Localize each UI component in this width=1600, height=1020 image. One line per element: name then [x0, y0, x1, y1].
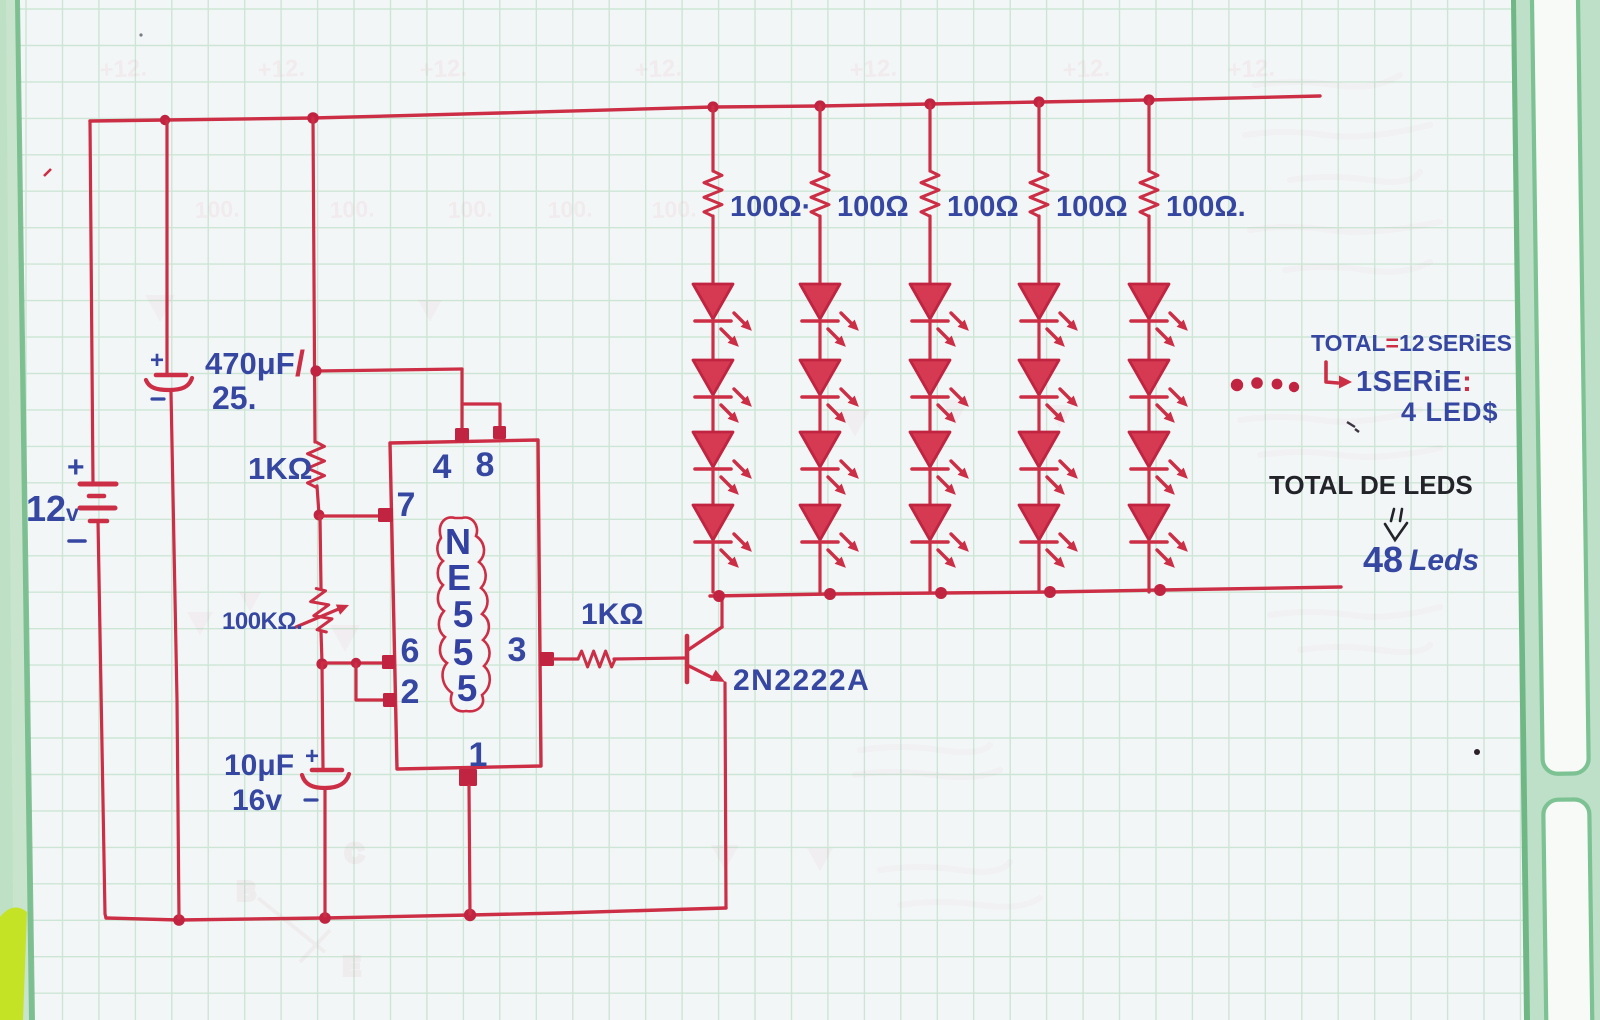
node: return rail junction column 5: [1154, 584, 1166, 596]
svg-text:/: /: [295, 343, 305, 384]
label: battery + terminal: [67, 451, 85, 484]
label: NE555 bubble outline: [437, 517, 489, 711]
label: C1 value 25.: [212, 380, 256, 416]
svg-text:100.: 100.: [651, 195, 697, 223]
wire: column 1 rail to resistor: [711, 107, 714, 171]
wire: potentiometer to pin6 junction: [321, 631, 322, 663]
wire: column 3 between diode 3 and 4: [928, 469, 931, 505]
node: return rail junction column 3: [935, 587, 947, 599]
svg-text:+: +: [67, 451, 85, 484]
svg-text:TOTAL DE LEDS: TOTAL DE LEDS: [1269, 470, 1473, 500]
wire: LED cathode return rail: [710, 587, 1341, 596]
op-amp U1 NE555 timer body: [390, 440, 541, 769]
wire: column 5 resistor to first LED: [1147, 216, 1150, 284]
resistor R2 1K base resistor: [578, 651, 615, 667]
label: C1 + sign: [150, 347, 164, 374]
svg-text:v: v: [66, 500, 79, 526]
label: pin number 1: [469, 736, 488, 774]
LED column 4 diode 2: [1019, 360, 1078, 423]
svg-text:100.: 100.: [194, 195, 240, 223]
LED column 2 diode 1: [800, 284, 859, 347]
svg-text:100Ω: 100Ω: [837, 191, 909, 223]
wire: column 2 last LED to return rail: [818, 542, 821, 592]
label: pin number 8: [476, 446, 495, 484]
svg-text:6: 6: [401, 632, 420, 670]
resistor R3 100 ohm column 1: [704, 171, 722, 216]
wire: column 1 resistor to first LED: [711, 216, 714, 284]
wire: column 4 between diode 2 and 3: [1037, 397, 1040, 432]
svg-text:100Ω·: 100Ω·: [730, 191, 811, 223]
wire: C1 negative plate down to bottom rail: [171, 392, 179, 918]
wire: column 3 resistor to first LED: [928, 216, 931, 284]
wire: junction down to potentiometer: [320, 516, 321, 588]
svg-text:1KΩ: 1KΩ: [581, 598, 643, 631]
svg-text:2: 2: [401, 673, 420, 711]
wire: column 4 between diode 1 and 2: [1037, 321, 1040, 360]
svg-text:+: +: [305, 743, 319, 770]
wire: battery negative down to bottom rail: [98, 521, 106, 918]
svg-text:100Ω: 100Ω: [1056, 191, 1128, 223]
node: junction R1 / pin7 / pot: [314, 510, 325, 521]
wire: column 3 rail to resistor: [928, 104, 931, 171]
svg-text:N: N: [445, 521, 471, 562]
svg-text:TOTAL=12SERiES: TOTAL=12SERiES: [1311, 330, 1512, 356]
wire: column 2 between diode 3 and 4: [818, 469, 821, 505]
node: top rail junction LED column 4: [1033, 96, 1044, 107]
LED column 1 diode 2: [693, 360, 752, 423]
svg-text:+12.: +12.: [849, 55, 898, 84]
LED column 5 diode 4: [1129, 505, 1188, 568]
svg-text:100.: 100.: [547, 195, 593, 223]
LED column 2 diode 2: [800, 360, 859, 423]
svg-text:+12.: +12.: [257, 55, 306, 84]
label: pin number 4: [433, 448, 452, 486]
label: battery - terminal: [69, 539, 85, 543]
wire: top rail to C1 positive plate: [165, 121, 168, 374]
svg-text:1KΩ: 1KΩ: [248, 451, 312, 486]
node: top rail junction LED column 3: [924, 98, 935, 109]
node: return rail junction column 4: [1044, 586, 1056, 598]
svg-text:+12.: +12.: [1227, 55, 1276, 84]
wire: battery positive to top rail: [90, 121, 93, 484]
LED column 4 diode 3: [1019, 432, 1078, 495]
wire: column 3 last LED to return rail: [928, 542, 931, 592]
svg-text:7: 7: [397, 486, 416, 524]
wire: column 5 between diode 1 and 2: [1147, 321, 1150, 360]
label: R2 value 1KΩ: [581, 598, 643, 631]
svg-text:+12.: +12.: [634, 55, 683, 84]
wire: R1 bottom to discharge junction: [317, 486, 319, 514]
LED column 2 diode 4: [800, 505, 859, 568]
label: Q1 part number 2N2222A: [733, 664, 870, 697]
capacitor C2 10uF 16v electrolytic: [302, 770, 349, 788]
node: return rail junction column 1 / collector: [713, 590, 725, 602]
svg-text:100.: 100.: [447, 195, 493, 223]
LED column 5 diode 1: [1129, 284, 1188, 347]
label: C2 value 16v: [232, 784, 282, 817]
pin 2 pad of U1: [383, 693, 396, 707]
label: NE555 letters: [445, 521, 477, 709]
dots: ellipsis continuation of LED series: [1231, 377, 1299, 392]
label: pin number 2: [401, 673, 420, 711]
svg-text:3: 3: [508, 631, 527, 669]
label: 1 SERIE:: [1356, 366, 1472, 398]
wire: pin 3 to base resistor: [554, 657, 578, 660]
label: column 3 resistor value 100Ω: [947, 191, 1019, 223]
label: RV1 value 100KΩ.: [222, 608, 302, 635]
capacitor C1 470uF/25 electrolytic: [146, 375, 192, 390]
svg-text:5: 5: [453, 594, 474, 635]
pin 3 pad of U1: [540, 652, 554, 666]
node: bottom rail junction at 470uF branch: [173, 914, 185, 926]
label: C2 value 10uF: [224, 749, 294, 782]
wire: VCC junction to pin 4 (and jog to pin 8): [316, 369, 500, 429]
wire: column 2 between diode 2 and 3: [818, 397, 821, 432]
svg-text:+12.: +12.: [1062, 55, 1111, 84]
pin 1 pad of U1: [459, 769, 477, 786]
wire: column 4 rail to resistor: [1037, 102, 1040, 171]
node: top rail junction at 555/R1 branch: [307, 112, 319, 124]
wire: column 3 between diode 2 and 3: [928, 397, 931, 432]
svg-text:16v: 16v: [232, 784, 282, 817]
svg-text:12: 12: [26, 488, 66, 529]
label: 4 LEDS: [1401, 397, 1499, 427]
label: column 4 resistor value 100Ω: [1056, 191, 1128, 223]
wire: pin2 branch down and right to 555 pin 2: [356, 664, 384, 700]
wire: top rail down to R1: [313, 118, 315, 442]
svg-text:8: 8: [476, 446, 495, 484]
wire: column 5 last LED to return rail: [1147, 542, 1150, 592]
wire: column 1 between diode 2 and 3: [711, 397, 714, 432]
LED column 3 diode 1: [910, 284, 969, 347]
svg-text:4 LED$: 4 LED$: [1401, 397, 1499, 427]
label: pin number 6: [401, 632, 420, 670]
node: junction on 555 branch feeding pins 4/8: [310, 365, 321, 376]
LED column 3 diode 4: [910, 505, 969, 568]
resistor R6 100 ohm column 4: [1030, 171, 1048, 216]
svg-text:E: E: [343, 951, 360, 981]
resistor R4 100 ohm column 2: [811, 171, 829, 216]
svg-text:470μF: 470μF: [205, 346, 295, 381]
wire: column 5 between diode 3 and 4: [1147, 469, 1150, 505]
node: top rail junction LED column 2: [814, 100, 825, 111]
wire: column 1 between diode 1 and 2: [711, 321, 714, 360]
LED column 5 diode 3: [1129, 432, 1188, 495]
svg-text:100Ω: 100Ω: [947, 191, 1019, 223]
wire: column 3 between diode 1 and 2: [928, 321, 931, 360]
LED column 4 diode 4: [1019, 505, 1078, 568]
label: R1 value 1KΩ: [248, 451, 312, 486]
resistor R7 100 ohm column 5: [1140, 171, 1158, 216]
wire: column 1 between diode 3 and 4: [711, 469, 714, 505]
node: return rail junction column 2: [824, 588, 836, 600]
LED column 5 diode 2: [1129, 360, 1188, 423]
wire: C2 negative plate to bottom rail: [323, 790, 326, 916]
node: bottom rail junction at pin1 branch: [464, 909, 476, 921]
label: pin number 7: [397, 486, 416, 524]
svg-text:10μF: 10μF: [224, 749, 294, 782]
svg-text:B: B: [237, 876, 256, 906]
label: C2 - sign: [305, 798, 317, 801]
label: C1 - sign: [152, 397, 164, 400]
wire: column 4 resistor to first LED: [1037, 216, 1040, 284]
wire: Q1 collector up to LED return rail: [720, 598, 723, 627]
svg-text:E: E: [447, 557, 471, 598]
LED column 1 diode 1: [693, 284, 752, 347]
wire: column 2 resistor to first LED: [818, 216, 821, 284]
wire: column 4 between diode 3 and 4: [1037, 469, 1040, 505]
label: battery value 12v: [26, 488, 79, 529]
svg-text:5: 5: [457, 668, 478, 709]
label: TOTAL DE LEDS: [1269, 470, 1473, 500]
pin 4 pad of U1: [455, 428, 469, 442]
node: top rail junction LED column 1: [707, 101, 718, 112]
potentiometer RV1 100K: [296, 587, 349, 634]
wire: bottom return rail: [106, 908, 726, 920]
pin 6 pad of U1: [382, 655, 395, 669]
svg-text:5: 5: [453, 632, 474, 673]
label: column 1 resistor value 100Ω: [730, 191, 811, 223]
label: pin number 3: [508, 631, 527, 669]
battery BT1 12v plates: [80, 484, 116, 521]
svg-text:Leds: Leds: [1409, 544, 1479, 577]
wire: Q1 emitter down to bottom rail: [725, 683, 726, 908]
LED column 1 diode 3: [693, 432, 752, 495]
svg-text:100KΩ.: 100KΩ.: [222, 608, 302, 635]
label: column 2 resistor value 100Ω: [837, 191, 909, 223]
svg-text:100.: 100.: [329, 195, 375, 223]
label: C2 + sign: [305, 743, 319, 770]
svg-text:1SERiE:: 1SERiE:: [1356, 366, 1472, 398]
pin 8 pad of U1: [493, 426, 506, 439]
wire: column 5 between diode 2 and 3: [1147, 397, 1150, 432]
svg-text:25.: 25.: [212, 380, 256, 416]
wire: junction down to C2 positive plate: [322, 665, 323, 768]
LED column 2 diode 3: [800, 432, 859, 495]
arrow: down arrow to total: [1385, 509, 1407, 540]
svg-text:2N2222A: 2N2222A: [733, 664, 870, 697]
svg-text:+: +: [150, 347, 164, 374]
node: junction pin 2 branch: [351, 658, 361, 668]
node: junction pot / pin 6 wire: [316, 658, 327, 669]
pin 7 pad of U1: [378, 508, 393, 522]
label: 48 Leds: [1363, 539, 1479, 580]
wire: junction to 555 pin 7: [319, 514, 378, 517]
node: top rail junction LED column 5: [1143, 94, 1154, 105]
LED column 3 diode 3: [910, 432, 969, 495]
wire: +12V top supply rail: [90, 96, 1320, 121]
svg-text:+12.: +12.: [99, 55, 148, 84]
node: top rail junction at 470uF branch: [160, 115, 170, 125]
wire: base resistor to Q1 base: [614, 658, 685, 659]
label: C1 value 470uF/: [205, 343, 305, 384]
transistor Q1 2N2222A: [687, 627, 725, 682]
wire: column 4 last LED to return rail: [1037, 542, 1040, 592]
wire: column 1 last LED to return rail: [711, 542, 714, 592]
arrow: pointer to 1 serie: [1326, 362, 1352, 389]
svg-text:4: 4: [433, 448, 452, 486]
wire: column 5 rail to resistor: [1147, 100, 1150, 171]
svg-text:1: 1: [469, 736, 488, 774]
node: bottom rail junction at C2 branch: [319, 912, 331, 924]
LED column 3 diode 2: [910, 360, 969, 423]
resistor R1 1K: [308, 442, 325, 487]
wire: pin 1 down to bottom rail: [469, 786, 470, 914]
svg-text:C: C: [345, 838, 364, 868]
svg-text:+12.: +12.: [419, 55, 468, 84]
LED column 4 diode 1: [1019, 284, 1078, 347]
svg-text:100Ω.: 100Ω.: [1166, 191, 1246, 223]
wire: column 2 between diode 1 and 2: [818, 321, 821, 360]
label: TOTAL=12 SERIES: [1311, 330, 1512, 356]
svg-text:48: 48: [1363, 539, 1403, 580]
resistor R5 100 ohm column 3: [921, 171, 939, 216]
LED column 1 diode 4: [693, 505, 752, 568]
wire: junction to 555 pin 6: [322, 661, 383, 664]
wire: column 2 rail to resistor: [818, 106, 821, 171]
label: column 5 resistor value 100Ω: [1166, 191, 1246, 223]
